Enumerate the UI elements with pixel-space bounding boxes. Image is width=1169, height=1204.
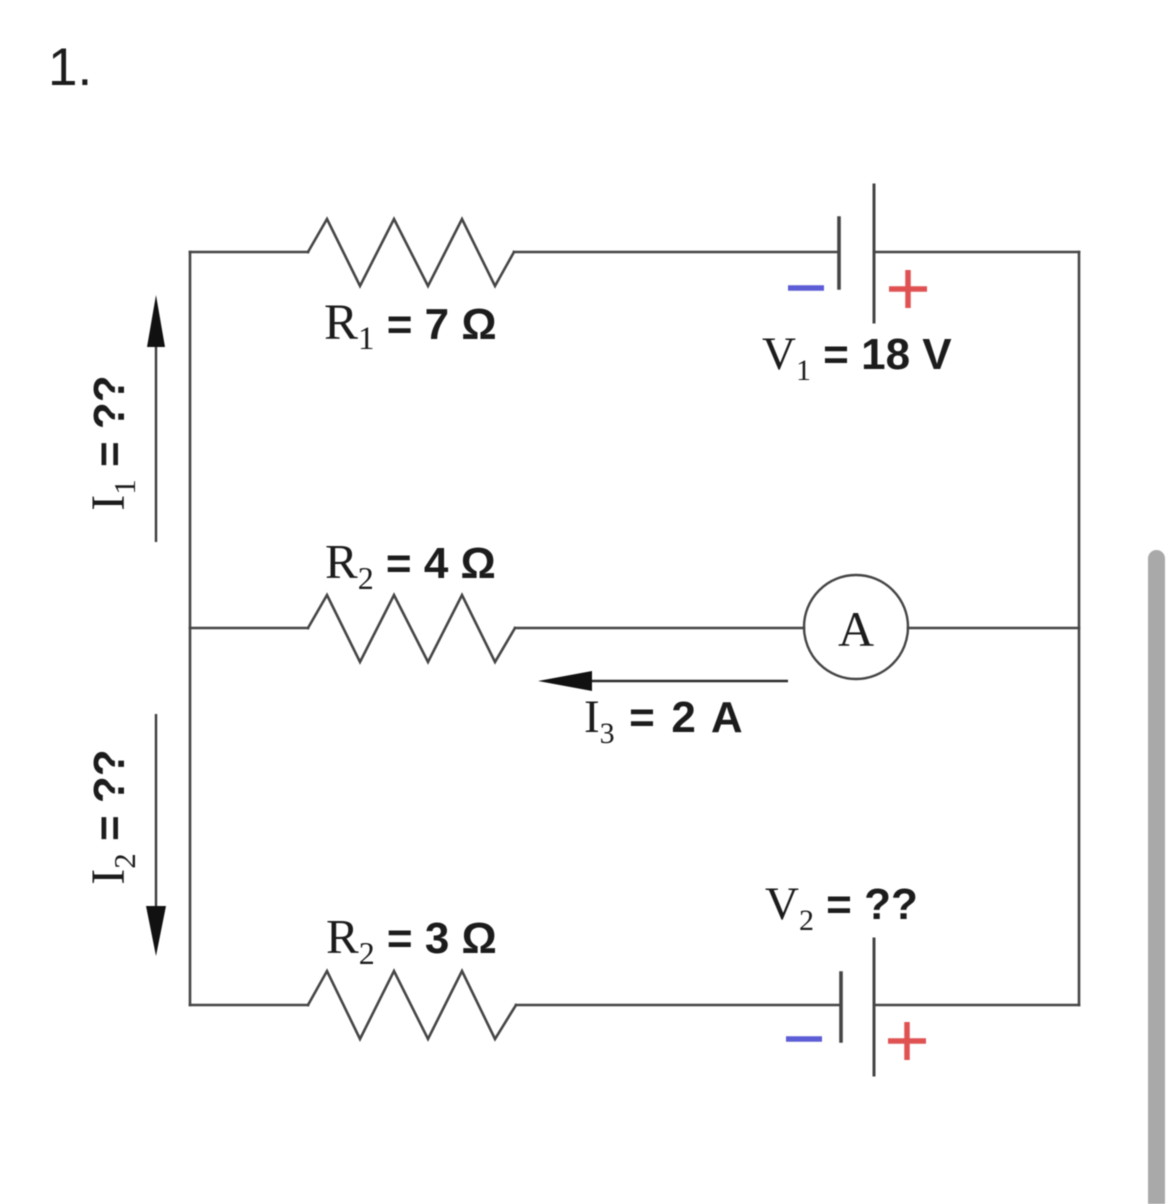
current arrow I1 (up) bbox=[147, 295, 165, 542]
battery V2 positive plate bbox=[873, 939, 876, 1075]
wire: R1 to battery V1 bbox=[514, 251, 839, 254]
wire: battery V2 to bottom-right corner bbox=[874, 1004, 1079, 1007]
wire: battery V1 to top-right corner bbox=[874, 251, 1079, 254]
svg-text:R2 = 4 Ω: R2 = 4 Ω bbox=[325, 534, 496, 596]
wire: ammeter to right bus bbox=[908, 627, 1079, 630]
current arrow I2 (down) bbox=[146, 714, 166, 956]
svg-text:R2 = 3 Ω: R2 = 3 Ω bbox=[326, 909, 497, 971]
current arrow I3 (left) bbox=[538, 671, 788, 691]
battery V1 positive plate bbox=[873, 185, 876, 322]
wire: bottom-left to R3 bbox=[190, 1004, 308, 1007]
svg-text:I3 = 2 A: I3 = 2 A bbox=[584, 691, 745, 750]
resistor R2 bbox=[308, 595, 515, 662]
svg-text:I1 = ??: I1 = ?? bbox=[82, 375, 142, 510]
battery V1 minus sign bbox=[788, 285, 824, 291]
battery V1 negative plate bbox=[837, 218, 841, 288]
svg-text:1.: 1. bbox=[48, 38, 92, 97]
wire: right vertical bus bbox=[1078, 252, 1081, 1005]
battery V2 minus sign bbox=[786, 1036, 822, 1042]
ammeter U1 circle bbox=[804, 575, 908, 679]
wire: top-left to R1 bbox=[190, 251, 308, 254]
svg-text:A: A bbox=[838, 601, 874, 657]
wire: R3 to battery V2 bbox=[516, 1004, 841, 1007]
svg-text:I2 = ??: I2 = ?? bbox=[82, 749, 142, 884]
svg-text:V2 = ??: V2 = ?? bbox=[765, 878, 918, 937]
scrollbar thumb bbox=[1148, 550, 1165, 1204]
wire: left vertical bus bbox=[189, 252, 192, 1005]
battery V1 plus sign bbox=[889, 270, 927, 308]
wire: R2 to ammeter bbox=[515, 627, 804, 630]
battery V2 negative plate bbox=[839, 973, 843, 1041]
resistor R1 bbox=[308, 219, 514, 286]
resistor R3 bbox=[308, 971, 516, 1039]
battery V2 plus sign bbox=[888, 1022, 926, 1060]
svg-text:R1 = 7 Ω: R1 = 7 Ω bbox=[324, 295, 497, 357]
wire: middle-left bus to R2 bbox=[190, 627, 308, 630]
svg-text:V1 = 18 V: V1 = 18 V bbox=[762, 328, 952, 387]
